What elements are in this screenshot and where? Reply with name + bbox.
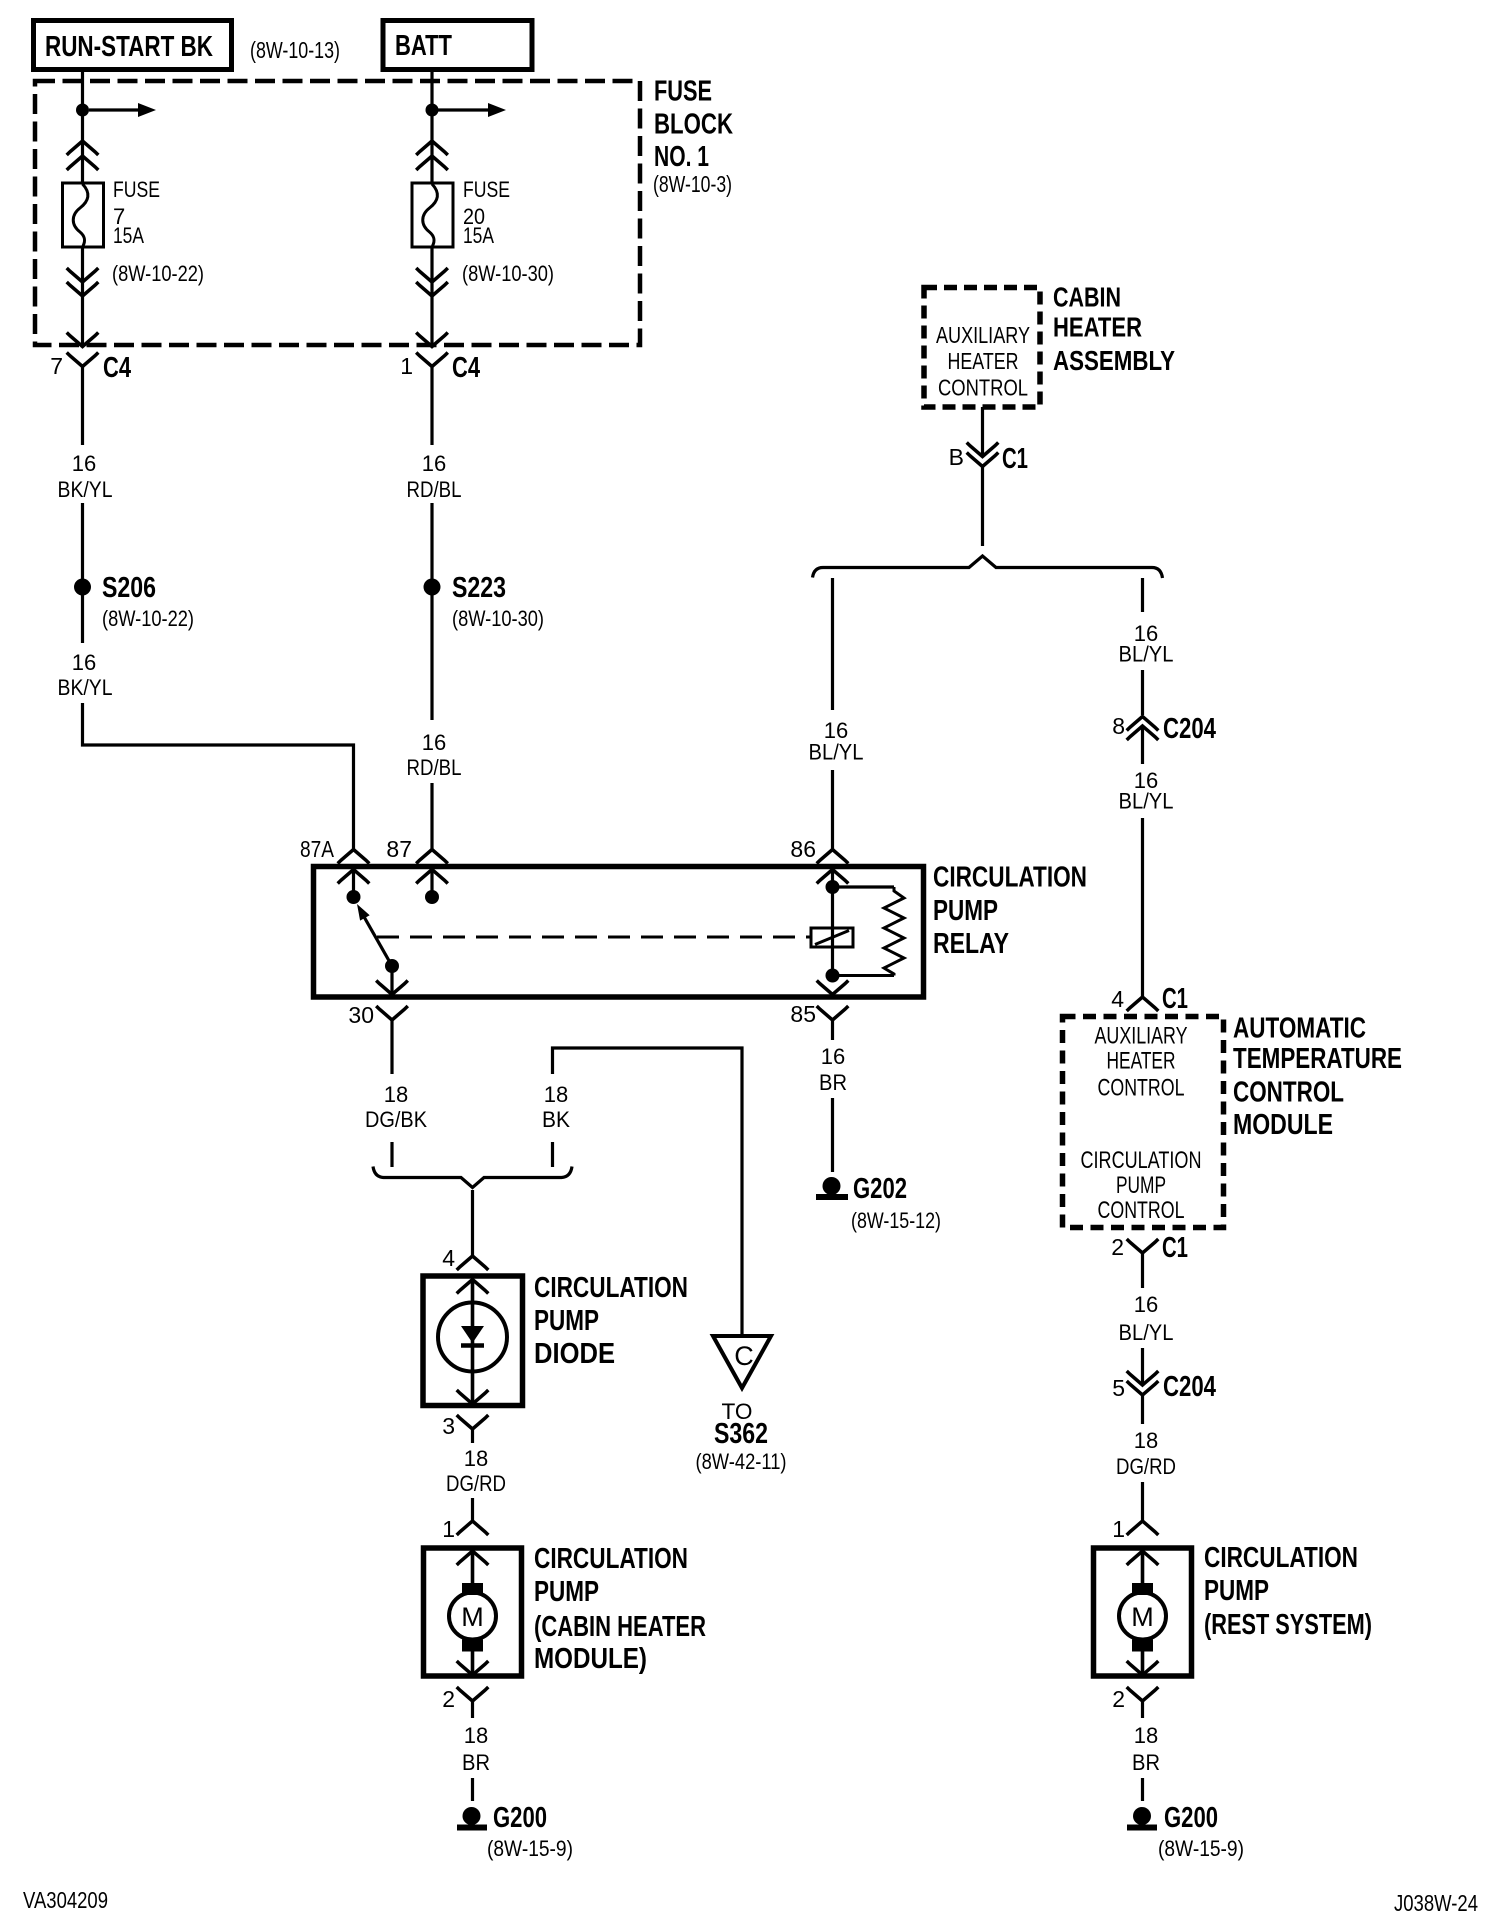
svg-text:FUSE: FUSE <box>113 177 160 202</box>
wire 18 BK <box>553 1048 743 1336</box>
svg-text:CIRCULATION: CIRCULATION <box>534 1272 688 1304</box>
wire 18 DG/BK <box>390 1020 393 1074</box>
svg-text:MODULE): MODULE) <box>534 1643 647 1675</box>
wire from aux heater control <box>981 407 984 455</box>
split brace <box>813 556 1163 578</box>
svg-text:15A: 15A <box>463 223 494 248</box>
connector 4 C1 <box>1127 997 1159 1011</box>
wire 16 RD/BL upper <box>430 367 433 446</box>
svg-text:18: 18 <box>544 1082 568 1107</box>
svg-text:FUSE: FUSE <box>654 76 712 108</box>
svg-text:PUMP: PUMP <box>933 895 998 927</box>
wire BATT feed <box>430 70 433 183</box>
coil resistor zigzag <box>884 887 904 976</box>
svg-text:18: 18 <box>464 1723 488 1748</box>
motor symbol <box>462 1583 483 1595</box>
ATC module dashed box <box>1063 1017 1224 1228</box>
svg-text:S223: S223 <box>452 572 506 604</box>
splice S206 <box>74 579 91 596</box>
pump cabin heater box <box>424 1548 522 1676</box>
svg-text:CIRCULATION: CIRCULATION <box>1204 1542 1358 1574</box>
svg-text:1: 1 <box>1112 1516 1125 1542</box>
svg-text:BLOCK: BLOCK <box>654 109 733 141</box>
svg-text:RD/BL: RD/BL <box>407 755 462 780</box>
svg-text:(8W-10-22): (8W-10-22) <box>102 606 194 631</box>
svg-text:M: M <box>1131 1602 1154 1632</box>
connector 5 C204 <box>1127 1371 1159 1385</box>
svg-text:S206: S206 <box>102 572 156 604</box>
svg-text:5: 5 <box>1112 1375 1125 1401</box>
connector 1 into rest pump <box>1127 1521 1159 1535</box>
svg-text:PUMP: PUMP <box>1204 1575 1269 1607</box>
svg-text:CIRCULATION: CIRCULATION <box>1081 1147 1202 1174</box>
svg-text:HEATER: HEATER <box>1107 1048 1176 1075</box>
relay contact 87A dot <box>347 890 361 904</box>
svg-text:G202: G202 <box>853 1173 907 1205</box>
junction dot right <box>426 104 439 117</box>
svg-text:C1: C1 <box>1162 1232 1188 1264</box>
svg-text:C4: C4 <box>103 352 131 384</box>
svg-text:15A: 15A <box>113 223 144 248</box>
svg-text:BK/YL: BK/YL <box>58 477 113 502</box>
svg-text:(8W-10-22): (8W-10-22) <box>112 261 204 286</box>
svg-text:18: 18 <box>384 1082 408 1107</box>
svg-text:16: 16 <box>1134 1292 1158 1317</box>
svg-text:RUN-START BK: RUN-START BK <box>45 31 213 63</box>
connector 3 below diode <box>457 1415 489 1429</box>
svg-text:AUTOMATIC: AUTOMATIC <box>1233 1013 1366 1045</box>
svg-text:G200: G200 <box>1164 1802 1218 1834</box>
svg-text:CIRCULATION: CIRCULATION <box>534 1543 688 1575</box>
power node box RUN-START <box>34 21 232 70</box>
svg-text:NO. 1: NO. 1 <box>654 141 709 173</box>
svg-text:2: 2 <box>442 1686 455 1712</box>
svg-text:(8W-15-9): (8W-15-9) <box>487 1836 573 1861</box>
connector 2 below pump <box>457 1687 489 1701</box>
connector 7 C4 <box>67 353 99 367</box>
relay common dot pin30 <box>385 959 399 973</box>
connector 2 C1 below ATC <box>1127 1239 1159 1253</box>
svg-text:86: 86 <box>790 836 816 862</box>
fuse block no.1 dashed enclosure <box>35 81 640 345</box>
svg-text:DG/BK: DG/BK <box>365 1107 427 1132</box>
svg-text:CONTROL: CONTROL <box>938 375 1028 401</box>
svg-text:G200: G200 <box>493 1802 547 1834</box>
branch arrow left <box>89 108 138 111</box>
svg-text:(8W-15-9): (8W-15-9) <box>1158 1836 1244 1861</box>
svg-text:FUSE: FUSE <box>463 177 510 202</box>
relay coil node 85 dot <box>826 969 840 983</box>
svg-text:CIRCULATION: CIRCULATION <box>933 862 1087 894</box>
svg-text:HEATER: HEATER <box>1053 312 1142 343</box>
relay pin 87 entry <box>416 850 448 864</box>
relay coil node 86 <box>826 880 840 894</box>
diode circle <box>438 1303 507 1372</box>
wire below fuse 7 <box>81 247 84 346</box>
svg-text:C204: C204 <box>1163 1371 1216 1403</box>
ground G200 left <box>463 1807 481 1825</box>
svg-text:M: M <box>461 1602 484 1632</box>
relay box <box>314 867 924 998</box>
svg-text:CABIN: CABIN <box>1053 282 1121 313</box>
svg-text:C204: C204 <box>1163 713 1216 745</box>
svg-text:DIODE: DIODE <box>534 1338 615 1370</box>
diode symbol <box>461 1326 484 1343</box>
svg-text:16: 16 <box>422 451 446 476</box>
svg-text:BL/YL: BL/YL <box>1119 789 1174 814</box>
svg-text:B: B <box>949 444 964 470</box>
svg-text:30: 30 <box>348 1002 374 1028</box>
motor symbol rest <box>1132 1583 1153 1595</box>
svg-text:BK/YL: BK/YL <box>58 675 113 700</box>
svg-text:8: 8 <box>1112 713 1125 739</box>
svg-text:BR: BR <box>462 1750 490 1775</box>
svg-text:BK: BK <box>542 1107 570 1132</box>
svg-text:(8W-15-12): (8W-15-12) <box>851 1208 941 1233</box>
connector B C1 <box>967 443 999 457</box>
svg-text:(8W-10-30): (8W-10-30) <box>452 606 544 631</box>
svg-text:16: 16 <box>422 730 446 755</box>
connector chevrons above fuse 7 <box>67 141 99 155</box>
power node box BATT <box>383 21 532 70</box>
svg-text:(8W-10-13): (8W-10-13) <box>250 37 340 63</box>
wire 16 RD/BL lower <box>430 595 433 720</box>
aux heater control dashed box <box>924 288 1040 408</box>
svg-text:4: 4 <box>1111 986 1124 1012</box>
relay switch arm <box>363 915 392 966</box>
svg-text:AUXILIARY: AUXILIARY <box>936 322 1030 348</box>
svg-text:(8W-10-30): (8W-10-30) <box>462 261 554 286</box>
svg-text:16: 16 <box>72 650 96 675</box>
junction dot left <box>76 104 89 117</box>
svg-text:C1: C1 <box>1162 983 1188 1015</box>
ground G200 right <box>1133 1807 1151 1825</box>
connector 4 into diode <box>457 1256 489 1270</box>
relay control dashed line <box>377 936 811 939</box>
connector 1 into pump <box>457 1521 489 1535</box>
svg-text:VA304209: VA304209 <box>23 1887 108 1913</box>
connector 8 C204 <box>1127 717 1159 731</box>
svg-text:18: 18 <box>1134 1723 1158 1748</box>
svg-text:(REST SYSTEM): (REST SYSTEM) <box>1204 1609 1372 1641</box>
splice S223 <box>424 579 441 596</box>
svg-text:BR: BR <box>1132 1750 1160 1775</box>
svg-text:85: 85 <box>790 1001 816 1027</box>
wire below fuse 20 <box>430 247 433 346</box>
branch arrow right <box>438 108 488 111</box>
fuse 20 <box>412 183 453 247</box>
svg-text:DG/RD: DG/RD <box>446 1471 506 1496</box>
wire 16 BL/YL to relay 86 <box>831 578 834 710</box>
svg-text:CONTROL: CONTROL <box>1233 1077 1344 1109</box>
connector 85 below relay <box>817 1006 849 1020</box>
svg-text:MODULE: MODULE <box>1233 1109 1333 1141</box>
svg-text:RD/BL: RD/BL <box>407 477 462 502</box>
svg-text:87: 87 <box>386 836 412 862</box>
svg-text:BATT: BATT <box>395 30 452 62</box>
svg-text:PUMP: PUMP <box>1116 1172 1166 1199</box>
ground G202 <box>823 1177 841 1195</box>
svg-text:AUXILIARY: AUXILIARY <box>1095 1023 1188 1050</box>
fuse 7 <box>63 183 104 247</box>
svg-text:J038W-24: J038W-24 <box>1394 1890 1478 1916</box>
connector 2 below rest pump <box>1127 1687 1159 1701</box>
svg-text:2: 2 <box>1111 1234 1124 1260</box>
svg-text:18: 18 <box>1134 1428 1158 1453</box>
diode box <box>423 1276 523 1406</box>
wire 16 BK/YL upper <box>81 367 84 446</box>
merge brace <box>373 1167 572 1188</box>
pump rest system box <box>1094 1548 1192 1676</box>
coil element box <box>811 928 853 947</box>
svg-text:(8W-10-3): (8W-10-3) <box>653 171 732 197</box>
off-page connector C <box>713 1336 771 1388</box>
svg-text:87A: 87A <box>300 836 335 862</box>
svg-text:C: C <box>734 1341 754 1371</box>
svg-text:(CABIN HEATER: (CABIN HEATER <box>534 1611 706 1643</box>
wire corner to 87A <box>83 703 354 849</box>
svg-text:CONTROL: CONTROL <box>1098 1075 1185 1102</box>
svg-text:RELAY: RELAY <box>933 928 1009 960</box>
connector chevrons above fuse 20 <box>416 141 448 155</box>
wire RUN-START feed <box>81 70 84 183</box>
svg-text:BL/YL: BL/YL <box>1119 642 1174 667</box>
svg-text:CONTROL: CONTROL <box>1098 1197 1185 1224</box>
svg-text:18: 18 <box>464 1446 488 1471</box>
svg-text:4: 4 <box>442 1245 455 1271</box>
svg-text:S362: S362 <box>714 1418 768 1450</box>
svg-text:BR: BR <box>819 1070 847 1095</box>
svg-text:C1: C1 <box>1002 443 1028 475</box>
svg-text:PUMP: PUMP <box>534 1576 599 1608</box>
svg-text:DG/RD: DG/RD <box>1116 1454 1176 1479</box>
svg-text:16: 16 <box>821 1044 845 1069</box>
svg-text:7: 7 <box>50 353 63 379</box>
svg-text:(8W-42-11): (8W-42-11) <box>696 1449 787 1474</box>
wire 16 BL/YL right branch <box>1141 578 1144 612</box>
svg-text:1: 1 <box>400 353 413 379</box>
connector 1 C4 <box>416 353 448 367</box>
wire 16 BR <box>831 1020 834 1040</box>
connector 30 below relay <box>376 1006 408 1020</box>
svg-text:3: 3 <box>442 1413 455 1439</box>
svg-text:HEATER: HEATER <box>948 348 1019 374</box>
svg-text:PUMP: PUMP <box>534 1305 599 1337</box>
svg-text:BL/YL: BL/YL <box>809 740 864 765</box>
svg-text:C4: C4 <box>452 352 480 384</box>
svg-text:16: 16 <box>72 451 96 476</box>
svg-text:2: 2 <box>1112 1686 1125 1712</box>
svg-text:BL/YL: BL/YL <box>1119 1320 1174 1345</box>
relay pin 87A entry <box>338 850 370 864</box>
relay pin 86 entry <box>817 850 849 864</box>
svg-text:1: 1 <box>442 1516 455 1542</box>
wire 16 BK/YL lower <box>81 595 84 643</box>
svg-text:ASSEMBLY: ASSEMBLY <box>1053 345 1175 376</box>
svg-text:TEMPERATURE: TEMPERATURE <box>1233 1043 1402 1075</box>
relay contact 87 dot <box>425 890 439 904</box>
